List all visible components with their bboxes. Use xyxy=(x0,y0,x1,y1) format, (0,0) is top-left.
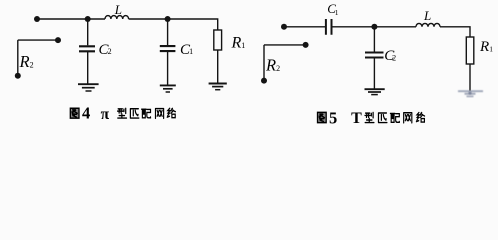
ground under C1 xyxy=(160,85,176,92)
wire C2 bottom lead xyxy=(87,52,89,84)
caption figure 4 pi-type matching network xyxy=(70,104,175,123)
node input dot left xyxy=(34,16,40,22)
svg-text:π: π xyxy=(101,106,110,123)
resistor R1 box right xyxy=(466,37,474,64)
svg-text:2: 2 xyxy=(276,64,280,73)
svg-text:R: R xyxy=(265,56,276,75)
svg-text:2: 2 xyxy=(108,47,112,56)
svg-text:T: T xyxy=(351,110,362,127)
wire R2 port vertical right xyxy=(263,45,265,81)
node R2 port lower right xyxy=(261,78,267,84)
svg-text:1: 1 xyxy=(489,45,493,54)
node junction C2/rail right xyxy=(371,24,377,30)
svg-text:5: 5 xyxy=(329,108,337,127)
svg-text:1: 1 xyxy=(335,8,339,17)
capacitor C2 plates right xyxy=(365,53,384,58)
node input dot right xyxy=(281,24,287,30)
capacitor C1 series plates xyxy=(326,19,332,35)
ground under C2 right xyxy=(365,89,385,94)
ground under R1 xyxy=(209,84,227,90)
wire C2 top lead xyxy=(87,19,89,45)
capacitor C2 plates xyxy=(79,46,95,51)
svg-text:L: L xyxy=(114,2,122,17)
svg-text:1: 1 xyxy=(241,41,245,50)
wire C1 top lead xyxy=(167,19,169,45)
svg-text:2: 2 xyxy=(392,53,396,62)
wire R1 bottom lead xyxy=(217,50,219,83)
wire top rail left segment xyxy=(37,18,105,20)
inductor L xyxy=(105,16,129,19)
node R2 port lower xyxy=(15,73,21,79)
svg-text:R: R xyxy=(231,34,242,51)
node R2 port upper xyxy=(55,37,61,43)
resistor R1 box xyxy=(214,30,222,50)
svg-text:4: 4 xyxy=(82,104,90,123)
wire C1 right plate to junction and on to inductor xyxy=(332,26,417,28)
wire R2 port horizontal xyxy=(18,39,58,41)
wire top rail right segment to R1 corner xyxy=(129,19,218,30)
svg-text:R: R xyxy=(479,39,489,55)
wire C2 top lead right xyxy=(373,27,375,52)
node junction C2/rail xyxy=(85,16,91,22)
wire C1 bottom lead xyxy=(167,52,169,85)
wire R2 port horizontal right xyxy=(264,44,306,46)
ground under R1 right (faint) xyxy=(458,91,483,96)
node R2 port upper right xyxy=(303,42,309,48)
inductor L right xyxy=(416,23,440,26)
svg-text:2: 2 xyxy=(30,61,34,70)
wire C2 bottom lead right xyxy=(373,58,375,89)
wire R1 bottom lead right xyxy=(469,64,471,91)
svg-text:1: 1 xyxy=(189,47,193,56)
ground under C2 xyxy=(78,84,99,91)
svg-text:L: L xyxy=(423,8,431,23)
node junction C1/rail xyxy=(165,16,171,22)
wire inductor to R1 corner xyxy=(440,27,470,37)
wire R2 port vertical xyxy=(17,40,19,76)
wire input to C1 left plate xyxy=(284,26,326,28)
capacitor C1 plates xyxy=(160,46,176,51)
caption figure 5 T-type matching network xyxy=(318,108,425,127)
svg-text:R: R xyxy=(19,52,30,71)
